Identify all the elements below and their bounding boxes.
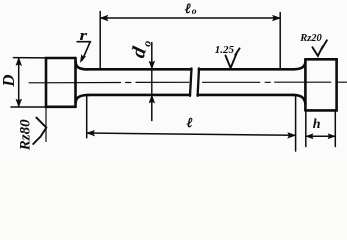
extension line l right: [295, 97, 297, 152]
extension line h left: [305, 112, 307, 147]
dimension line h: [306, 135, 336, 137]
arrow d0 lower (points up to shaft bottom): [149, 95, 155, 103]
arrow D top: [16, 58, 22, 66]
roughness mark Rz20 leader slash: [322, 40, 327, 49]
specimen right head outline: [305, 59, 336, 110]
roughness mark 1.25 slash: [235, 48, 239, 54]
arrow l left: [87, 130, 95, 136]
roughness mark Rz20 (check on right head top): [312, 46, 322, 56]
svg-text:D: D: [0, 74, 18, 87]
shaft left piece bottom line: [88, 94, 190, 97]
extension line D top: [14, 57, 46, 59]
break line right piece: [198, 68, 199, 95]
dimension line d0 lower: [151, 96, 153, 120]
shaft left piece top line: [87, 68, 191, 71]
dimension line D: [18, 58, 20, 106]
dimension line d0 upper: [151, 43, 153, 68]
label r: [80, 27, 88, 43]
arrow h right: [328, 134, 335, 139]
svg-text:o: o: [192, 7, 197, 17]
dimension line l: [87, 133, 295, 135]
specimen left head right face: [74, 58, 77, 107]
specimen left head outline: [46, 58, 76, 107]
fillet right-top: [294, 63, 305, 70]
dimension line d0 crossing shaft: [151, 69, 153, 96]
svg-text:ℓ: ℓ: [187, 115, 193, 130]
svg-text:h: h: [313, 117, 321, 132]
arrow d0 upper (points down to shaft top): [149, 61, 155, 69]
centerline (dash-dot axis): [29, 81, 347, 84]
extension line D bottom: [11, 106, 46, 108]
fillet r left-top: [76, 62, 88, 69]
fillet right-bottom: [293, 95, 306, 104]
extension line h right: [334, 112, 336, 147]
extension line l0 left: [99, 12, 101, 70]
extension of left head face (for Rz80): [45, 107, 47, 142]
shaft right piece top line: [199, 68, 294, 71]
leader r line: [82, 42, 90, 60]
roughness mark Rz80 (sideways check on head face): [33, 118, 46, 144]
svg-text:ℓ: ℓ: [185, 2, 191, 17]
svg-text:Rz20: Rz20: [299, 33, 322, 44]
arrow l0 left: [100, 15, 108, 21]
shaft right piece bottom line: [198, 94, 294, 97]
svg-text:1.25: 1.25: [215, 44, 235, 56]
svg-text:r: r: [80, 27, 88, 43]
specimen right head left face: [304, 59, 307, 110]
label d0: [127, 36, 154, 60]
arrow r (points to fillet): [80, 55, 85, 63]
arrow D bottom: [16, 99, 22, 107]
extension line l left: [86, 96, 88, 138]
leader r underline: [77, 41, 90, 43]
break line left piece: [190, 68, 192, 95]
svg-text:Rz80: Rz80: [18, 119, 34, 151]
extension line l0 right: [279, 13, 281, 70]
arrow h left: [306, 134, 313, 139]
dimension line l0: [100, 17, 280, 19]
fillet left-bottom: [76, 95, 89, 103]
roughness mark 1.25 (check on shaft top): [226, 53, 237, 68]
arrow l0 right: [273, 15, 281, 21]
arrow l right: [288, 133, 296, 139]
